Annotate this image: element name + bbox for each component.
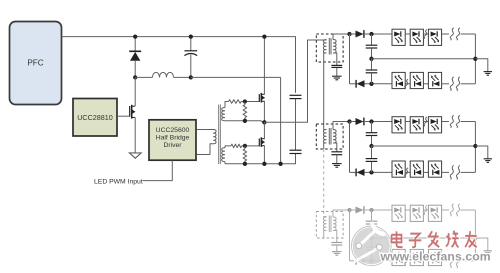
node filter mid junction bbox=[369, 57, 373, 61]
node rectifier input junction bbox=[347, 32, 351, 36]
diode D1 freewheel bbox=[129, 51, 141, 61]
transformer T3 secondary winding bbox=[333, 130, 336, 144]
wire diode to filter bbox=[364, 209, 392, 211]
wire UCC28810 gate drive bbox=[117, 115, 129, 117]
svg-text:Driver: Driver bbox=[163, 142, 182, 149]
wire resistor stub bbox=[244, 102, 246, 105]
wire secondary lower bottom stub bbox=[224, 162, 226, 164]
wire rectifier left vertical bbox=[349, 122, 351, 173]
wire row2 after break bbox=[461, 83, 476, 85]
wire secondary to rectifier bbox=[333, 34, 350, 40]
node upper cell bottom junction bbox=[243, 119, 247, 123]
wire anode lead bbox=[350, 33, 356, 35]
capacitor filter lower bbox=[366, 247, 378, 250]
wire ground stub bbox=[475, 146, 487, 159]
capacitor C2 resonant upper bbox=[290, 95, 302, 98]
transformer T4 core bbox=[329, 216, 331, 233]
diode rectifier bottom bbox=[356, 80, 364, 88]
transformer T3 isolation module dashed box bbox=[316, 124, 343, 149]
wire drain to switch node bbox=[134, 77, 136, 106]
LED module row1-1 bbox=[392, 205, 405, 221]
wire break squiggle small row2 bbox=[405, 256, 408, 265]
LED module row1-3 bbox=[428, 29, 441, 45]
block U2 UCC25600 Half Bridge Driver bbox=[149, 120, 196, 160]
wire secondary to rectifier bbox=[333, 210, 350, 217]
transformer T1 secondary lower winding bbox=[222, 148, 225, 162]
wire secondary lower top stub bbox=[225, 146, 231, 148]
LED module row2-2 bbox=[410, 72, 423, 88]
wire secondary top stub bbox=[225, 102, 229, 108]
wire row2 to break bbox=[442, 171, 449, 173]
transformer T2 core bbox=[329, 38, 331, 55]
diode rectifier top bbox=[356, 30, 364, 38]
node filter top junction bbox=[369, 208, 373, 212]
capacitor filter lower bbox=[366, 159, 378, 162]
wire ground stub bbox=[475, 59, 487, 72]
wire row1 after break bbox=[461, 121, 476, 123]
wire gate lead upper bbox=[241, 101, 259, 103]
wire cap stub bbox=[371, 48, 373, 59]
wire cap to ground bbox=[336, 68, 338, 76]
diode rectifier bottom bbox=[356, 169, 364, 177]
capacitor filter lower bbox=[366, 70, 378, 73]
ground LED return bbox=[484, 251, 492, 255]
watermark text www.elecfans.com bbox=[380, 250, 491, 264]
wire primary chain T3 to T4 dashed bbox=[324, 149, 327, 217]
wire switch node to primary feed bbox=[264, 40, 326, 122]
svg-text:UCC25600: UCC25600 bbox=[156, 127, 190, 134]
wire secondary bottom stub bbox=[333, 53, 337, 65]
wire source to bottom rail bbox=[263, 146, 265, 164]
ground secondary bbox=[332, 252, 342, 256]
capacitor secondary ground bbox=[331, 152, 342, 155]
wire diode to filter bbox=[364, 33, 392, 35]
wire right return vertical bbox=[474, 122, 476, 173]
wire break squiggle small row1 bbox=[424, 117, 427, 126]
wire secondary to rectifier bbox=[333, 122, 350, 130]
wire break squiggle row1 bbox=[450, 115, 460, 127]
wire primary lead inside box bbox=[324, 143, 327, 149]
wire mid rail to half-bridge return bbox=[191, 76, 281, 78]
wire LED link bbox=[405, 83, 410, 85]
wire LED link bbox=[405, 33, 410, 35]
diode rectifier top bbox=[356, 118, 364, 126]
watermark elecfans logo bbox=[352, 224, 392, 266]
LED module row1-3 bbox=[428, 117, 441, 133]
block U1 UCC28810 bbox=[73, 99, 117, 137]
wire primary end stub bbox=[324, 231, 327, 240]
LED module row1-2 bbox=[410, 117, 423, 133]
resistor R3 lower gate bbox=[231, 144, 242, 148]
capacitor filter upper bbox=[366, 133, 378, 136]
wire top rail segment bbox=[191, 36, 265, 38]
wire source to ground bbox=[134, 117, 136, 152]
wire upper cell bottom bbox=[225, 121, 264, 123]
LED module row2-2 bbox=[410, 161, 423, 177]
node return junction bbox=[473, 57, 477, 61]
wire PFC output to top rail bbox=[62, 36, 136, 38]
label LED PWM Input bbox=[94, 178, 143, 185]
wire drain to top rail bbox=[263, 37, 265, 95]
transformer T2 secondary winding bbox=[333, 40, 336, 54]
wire LED link bbox=[423, 83, 428, 85]
wire break squiggle row1 bbox=[450, 204, 460, 216]
node buck switch junction bbox=[133, 75, 137, 79]
wire break squiggle row2 bbox=[450, 77, 460, 91]
wire cap stub bbox=[371, 59, 373, 70]
wire right return vertical bbox=[474, 210, 476, 261]
resistor R2 upper gate-source bbox=[243, 105, 247, 118]
LED module row2-3 bbox=[428, 161, 441, 177]
transformer T3 primary winding bbox=[323, 130, 326, 144]
transistor Q1 buck MOSFET bbox=[130, 105, 135, 119]
wire ground stub bbox=[475, 238, 487, 251]
wire cap stub bbox=[371, 224, 373, 238]
wire anode lead bbox=[350, 209, 356, 211]
wire cap stub bbox=[371, 162, 373, 173]
node filter bottom junction bbox=[369, 170, 373, 174]
node return junction bbox=[473, 144, 477, 148]
LED module row2-3 bbox=[428, 72, 441, 88]
wire diode cathode stub bbox=[134, 37, 136, 52]
wire row1 after break bbox=[461, 209, 476, 211]
resistor R1 upper gate bbox=[229, 100, 242, 104]
node filter top junction bbox=[369, 119, 373, 123]
transformer T1 secondary upper winding bbox=[222, 108, 225, 121]
wire top rail segment bbox=[135, 36, 191, 38]
transistor Q2 half-bridge high side bbox=[259, 93, 264, 103]
wire LED link bbox=[423, 171, 428, 173]
wire driver output upper bbox=[197, 129, 214, 131]
node filter bottom junction bbox=[369, 82, 373, 86]
wire row2 after break bbox=[461, 260, 476, 262]
capacitor filter upper bbox=[366, 45, 378, 48]
ground buck source bbox=[129, 153, 141, 158]
svg-text:UCC28810: UCC28810 bbox=[77, 113, 113, 122]
resistor R4 lower gate-source bbox=[243, 149, 247, 161]
wire LED link bbox=[423, 260, 428, 262]
svg-text:LED PWM Input: LED PWM Input bbox=[94, 178, 143, 185]
node upper gate junction bbox=[243, 99, 247, 103]
wire cathode lead bbox=[350, 83, 357, 85]
wire cap top stub bbox=[190, 37, 192, 51]
wire LED link bbox=[423, 121, 428, 123]
wire break squiggle small row1 bbox=[424, 205, 427, 214]
wire cap to ground bbox=[336, 245, 338, 251]
wire rectifier left vertical bbox=[349, 34, 351, 84]
LED module row1-3 bbox=[428, 205, 441, 221]
wire cap stub bbox=[371, 238, 373, 247]
wire cap stub bbox=[371, 210, 373, 221]
diode rectifier top bbox=[356, 206, 364, 214]
wire break squiggle row1 bbox=[450, 28, 460, 40]
LED module row2-1 bbox=[392, 249, 405, 265]
svg-text:www.elecfans.com: www.elecfans.com bbox=[380, 250, 491, 264]
wire break squiggle small row1 bbox=[424, 29, 427, 38]
wire top rail to resonant cap corner bbox=[264, 37, 295, 93]
wire row1 to break bbox=[442, 209, 449, 211]
wire gate lead lower bbox=[242, 145, 259, 147]
wire to inductor bbox=[135, 76, 152, 78]
svg-text:PFC: PFC bbox=[27, 59, 43, 68]
wire row1 to break bbox=[442, 33, 449, 35]
transformer T1 gate-drive primary winding bbox=[213, 130, 216, 144]
ground secondary bbox=[332, 76, 342, 80]
wire diode to filter bottom bbox=[365, 83, 393, 85]
wire mid rail to ground node bbox=[372, 237, 476, 239]
node top rail junction A bbox=[133, 34, 137, 38]
wire inductor to cap node bbox=[174, 76, 191, 78]
wire anode lead bbox=[350, 121, 356, 123]
wire driver output lower bbox=[197, 144, 214, 155]
node rectifier input junction bbox=[347, 208, 351, 212]
wire cathode lead bbox=[350, 260, 357, 262]
wire cap to ground bbox=[336, 155, 338, 164]
inductor L1 bbox=[153, 72, 174, 77]
wire diode anode stub bbox=[134, 61, 136, 78]
node filter mid junction bbox=[369, 236, 373, 240]
wire mid rail to ground node bbox=[372, 145, 476, 147]
wire cap bottom stub bbox=[190, 55, 192, 78]
wire LED PWM input to UCC25600 bbox=[143, 160, 173, 180]
wire drain to switch node bbox=[263, 122, 265, 138]
node top rail junction at half bridge bbox=[262, 34, 266, 38]
wire diode to filter bottom bbox=[365, 171, 393, 173]
capacitor C3 resonant lower bbox=[290, 150, 302, 153]
node cap bottom junction bbox=[189, 75, 193, 79]
node bottom rail junction bbox=[243, 162, 247, 166]
watermark text 电子发烧友 bbox=[392, 231, 477, 248]
wire row1 after break bbox=[461, 33, 476, 35]
wire diode to filter bbox=[364, 121, 392, 123]
wire row1 to break bbox=[442, 121, 449, 123]
node cap top junction bbox=[189, 34, 193, 38]
wire break squiggle small row2 bbox=[405, 168, 408, 177]
wire LED link bbox=[405, 121, 410, 123]
node filter top junction bbox=[369, 32, 373, 36]
transformer T4 primary winding bbox=[323, 217, 326, 231]
wire LED link bbox=[405, 260, 410, 262]
node bottom rail junction bbox=[278, 162, 282, 166]
ground LED return bbox=[484, 159, 492, 163]
wire resistor stub bbox=[244, 118, 246, 121]
node bottom rail junction bbox=[262, 162, 266, 166]
wire LED link bbox=[405, 209, 410, 211]
transformer T4 secondary winding bbox=[333, 217, 336, 231]
wire break squiggle small row2 bbox=[405, 79, 408, 88]
wire row2 to break bbox=[442, 83, 449, 85]
LED module row1-2 bbox=[410, 29, 423, 45]
LED module row2-1 bbox=[392, 72, 405, 88]
ground LED return bbox=[484, 72, 492, 76]
wire return drop to bottom rail bbox=[280, 77, 282, 163]
node filter bottom junction bbox=[369, 259, 373, 263]
wire LED link bbox=[423, 33, 428, 35]
wire cap stub bbox=[371, 73, 373, 84]
wire source to switch node bbox=[263, 101, 265, 122]
wire LED link bbox=[423, 209, 428, 211]
transformer T2 primary winding bbox=[323, 40, 326, 54]
transformer T1 core bbox=[219, 105, 221, 165]
wire cap stub bbox=[371, 250, 373, 261]
capacitor secondary ground bbox=[331, 65, 342, 67]
wire break squiggle row2 bbox=[450, 165, 460, 179]
node rectifier input junction bbox=[347, 119, 351, 123]
LED module row1-2 bbox=[410, 205, 423, 221]
node lower gate junction bbox=[243, 144, 247, 148]
wire resistor stub bbox=[244, 146, 246, 149]
wire break squiggle row2 bbox=[450, 254, 460, 268]
wire between caps lower bbox=[295, 122, 297, 150]
wire cathode lead bbox=[350, 171, 357, 173]
wire resistor stub bbox=[244, 161, 246, 164]
node switch junction bbox=[262, 120, 266, 124]
LED module row2-1 bbox=[392, 161, 405, 177]
wire row2 after break bbox=[461, 171, 476, 173]
capacitor C1 bbox=[184, 51, 197, 56]
wire rectifier left vertical bbox=[349, 210, 351, 261]
wire cap stub bbox=[371, 146, 373, 158]
wire mid rail to ground node bbox=[372, 58, 476, 60]
capacitor filter upper bbox=[366, 221, 378, 224]
wire diode to filter bottom bbox=[365, 260, 393, 262]
wire LED link bbox=[405, 171, 410, 173]
wire right return vertical bbox=[474, 34, 476, 84]
wire cap stub bbox=[371, 34, 373, 45]
node filter mid junction bbox=[369, 144, 373, 148]
wire row2 to break bbox=[442, 260, 449, 262]
node return junction bbox=[473, 236, 477, 240]
LED module row2-3 bbox=[428, 249, 441, 265]
LED module row1-1 bbox=[392, 117, 405, 133]
capacitor secondary ground bbox=[331, 243, 342, 246]
wire between caps upper bbox=[295, 99, 297, 122]
transformer T2 isolation module dashed box bbox=[316, 34, 343, 62]
block PFC bbox=[10, 22, 62, 105]
LED module row2-2 bbox=[410, 249, 423, 265]
wire secondary bottom stub bbox=[333, 143, 337, 152]
transformer T4 isolation module dashed box bbox=[316, 212, 343, 239]
wire cap stub bbox=[371, 122, 373, 133]
wire cap stub bbox=[371, 136, 373, 146]
svg-text:Half Bridge: Half Bridge bbox=[156, 135, 190, 142]
ground secondary bbox=[332, 164, 342, 168]
wire primary chain T2 to T3 bbox=[324, 53, 327, 130]
wire half-bridge bottom rail bbox=[225, 154, 296, 164]
transistor Q3 half-bridge low side bbox=[259, 137, 264, 147]
wire secondary bottom stub bbox=[333, 231, 337, 243]
LED module row1-1 bbox=[392, 29, 405, 45]
transformer T3 core bbox=[329, 128, 331, 145]
diode rectifier bottom bbox=[356, 257, 364, 265]
